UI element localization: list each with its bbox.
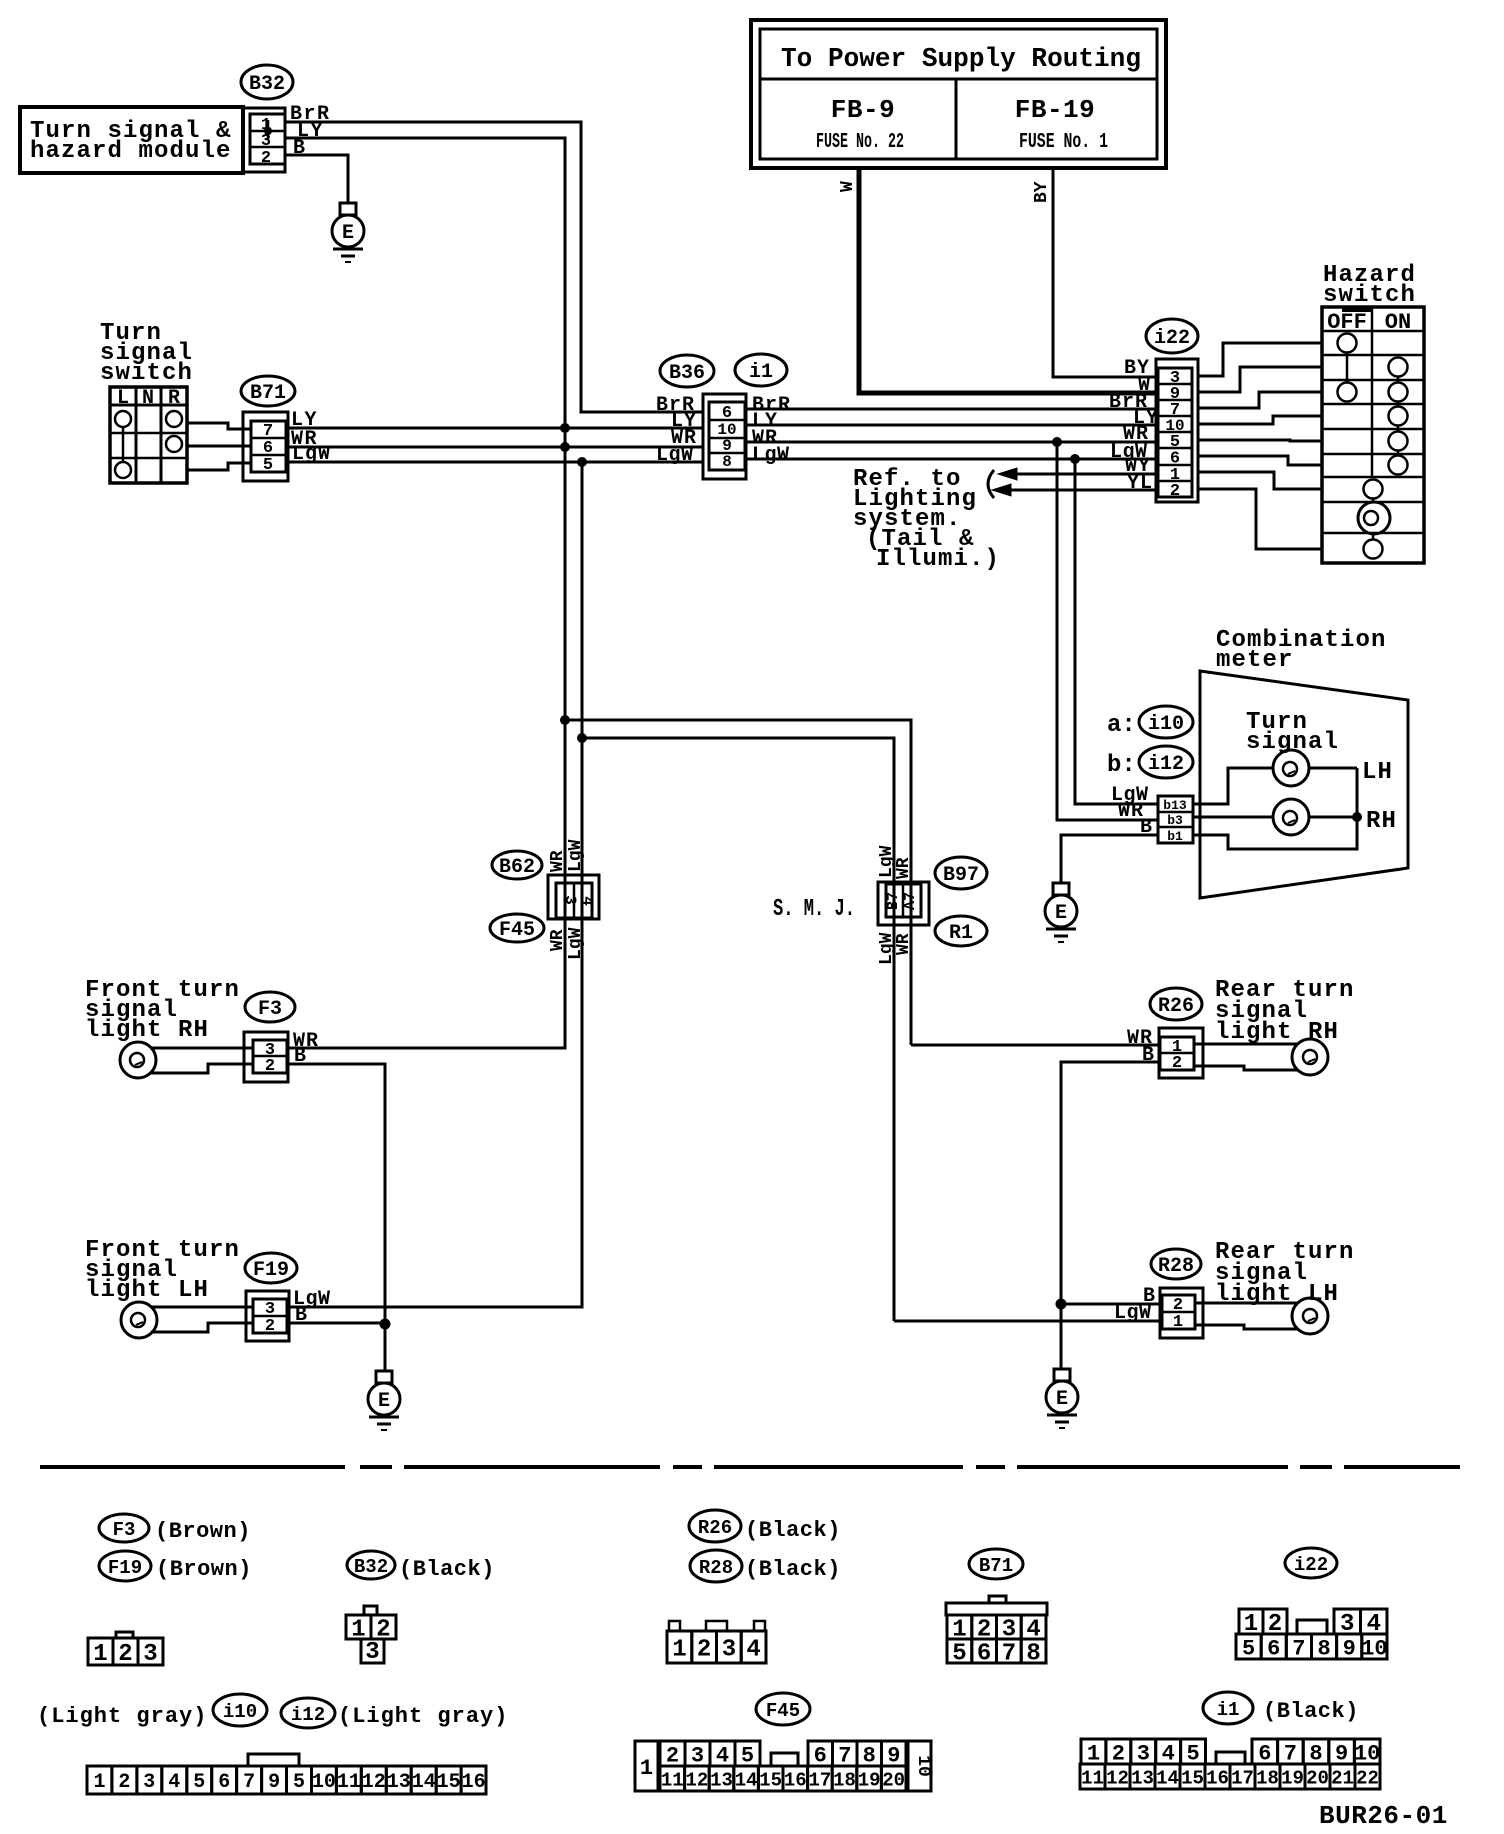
svg-text:i1: i1 — [1217, 1699, 1240, 1721]
wire B R28 pin2 — [1061, 1285, 1162, 1308]
wire BY from fuse FB-19 to i22 pin 3 — [1032, 168, 1156, 377]
wire B from B32 pin 2 to ground — [285, 137, 348, 203]
rear turn signal light RH — [1215, 977, 1355, 1046]
svg-text:switch: switch — [1323, 282, 1416, 309]
svg-text:2: 2 — [118, 1771, 130, 1794]
svg-text:(Black): (Black) — [745, 1518, 841, 1543]
svg-text:R1: R1 — [949, 922, 973, 945]
junction B front lights — [380, 1319, 391, 1372]
turn signal lamp LH — [1193, 750, 1393, 804]
svg-text:B: B — [1142, 1044, 1155, 1067]
svg-text:F45: F45 — [499, 919, 535, 942]
wire i22 pin7 to hazard row3 — [1198, 392, 1322, 408]
legend (Light gray) i10 i12 (Light gray) — [37, 1694, 508, 1729]
svg-text:8: 8 — [1317, 1636, 1330, 1661]
wire LY from B32 pin 3 to LY bus — [285, 120, 565, 428]
hazard switch — [1322, 262, 1424, 563]
svg-text:(Light gray): (Light gray) — [338, 1704, 508, 1729]
legend connector F19 (Brown) — [99, 1551, 252, 1582]
front turn signal light RH — [85, 977, 240, 1044]
svg-text:11: 11 — [661, 1769, 684, 1791]
svg-text:2: 2 — [1170, 482, 1180, 501]
wire WR F3 pin3 — [288, 1030, 565, 1053]
svg-text:14: 14 — [1156, 1767, 1179, 1789]
wire i22 pin3 to hazard row1 — [1198, 343, 1322, 376]
svg-text:1: 1 — [640, 1756, 653, 1781]
legend connector R28 (Black) — [690, 1550, 841, 1582]
svg-text:S. M. J.: S. M. J. — [773, 896, 855, 923]
wire i22 pin1 to hazard row7 — [1198, 472, 1322, 489]
svg-text:L: L — [117, 387, 129, 410]
junction LgW tap down — [577, 457, 587, 467]
svg-text:signal: signal — [1246, 729, 1339, 756]
svg-text:R26: R26 — [1158, 995, 1194, 1018]
svg-text:R: R — [168, 387, 180, 410]
svg-text:B71: B71 — [250, 382, 286, 405]
svg-text:20: 20 — [1306, 1767, 1329, 1789]
wire B F3 pin2 — [288, 1045, 385, 1324]
svg-text:light RH: light RH — [85, 1017, 209, 1044]
svg-text:F45: F45 — [766, 1700, 800, 1722]
legend pinout B32 — [346, 1606, 396, 1666]
arrow wire WY i22 pin1 ref — [998, 468, 1156, 480]
ground E front lights — [368, 1371, 400, 1430]
legend connector i1 (Black) — [1203, 1692, 1359, 1724]
svg-text:LgW: LgW — [566, 927, 586, 960]
svg-text:N: N — [142, 387, 154, 410]
wire i22 pin9 to hazard row2 — [1198, 367, 1322, 392]
svg-text:WR: WR — [894, 857, 914, 879]
ref. to lighting system note — [853, 466, 1000, 573]
svg-text:switch: switch — [100, 360, 193, 387]
svg-text:B: B — [293, 137, 307, 160]
svg-text:12: 12 — [1106, 1767, 1129, 1789]
svg-text:8: 8 — [1026, 1641, 1040, 1668]
connector B36/i1 — [656, 354, 791, 479]
wire i22 pin5 to hazard row5 — [1198, 440, 1322, 441]
svg-text:BY: BY — [1032, 181, 1052, 203]
svg-text:B97: B97 — [943, 864, 979, 887]
connector F3 — [244, 992, 295, 1082]
wire B R26 pin2 — [1061, 1044, 1160, 1304]
lamp rear RH — [1194, 1039, 1328, 1075]
wire WR trunk vertical (bus to F3) — [288, 447, 565, 1048]
svg-text:R28: R28 — [699, 1557, 733, 1579]
connector B97/R1 (SMJ) — [877, 845, 987, 965]
wire LgW R28 pin1 — [894, 1302, 1162, 1325]
svg-text:4: 4 — [746, 1637, 760, 1664]
svg-text:11: 11 — [1081, 1767, 1104, 1789]
svg-text:2: 2 — [118, 1641, 132, 1668]
svg-text:18: 18 — [1256, 1767, 1279, 1789]
svg-text:3: 3 — [365, 1639, 379, 1666]
legend pinout R26/R28 1-4 — [667, 1621, 766, 1664]
svg-text:R26: R26 — [698, 1517, 732, 1539]
wire WR bus B71 pin6 to B36 pin9 — [288, 428, 703, 451]
junction WR branch to SMJ — [560, 715, 911, 1045]
lamp common return to b1 — [1193, 768, 1362, 849]
svg-text:16: 16 — [784, 1769, 807, 1791]
legend pinout F45 20-pin — [635, 1741, 933, 1791]
svg-text:i1: i1 — [749, 361, 773, 384]
ground E below B32 — [332, 203, 364, 262]
svg-text:i12: i12 — [291, 1704, 325, 1726]
lamp front LH — [121, 1302, 253, 1338]
svg-text:4: 4 — [168, 1771, 180, 1794]
connector b13/b3/b1 — [1111, 784, 1193, 844]
power supply routing box — [751, 20, 1166, 168]
svg-text:WR: WR — [894, 933, 914, 955]
wire LgW bus B71 pin5 to B36 pin8 — [288, 443, 703, 466]
turn signal lamp RH — [1193, 799, 1397, 835]
svg-text:(Light gray): (Light gray) — [37, 1704, 207, 1729]
svg-text:W: W — [838, 181, 858, 192]
svg-text:10: 10 — [913, 1755, 933, 1777]
turn signal & hazard module — [20, 107, 243, 173]
junction LgW branch to SMJ — [577, 733, 894, 1321]
svg-text:F3: F3 — [258, 998, 282, 1021]
ground E rear lights — [1046, 1369, 1078, 1428]
wire W from fuse FB-9 to i22 pin 9 — [838, 168, 1156, 393]
wire i22 pin10 to hazard row4 — [1198, 416, 1322, 424]
connector ref a: i10 — [1107, 706, 1193, 739]
legend connector R26 (Black) — [689, 1510, 841, 1543]
svg-text:B32: B32 — [249, 73, 285, 96]
svg-text:17: 17 — [1231, 1767, 1254, 1789]
svg-text:5: 5 — [263, 456, 273, 475]
legend pinout i1 22-pin — [1080, 1739, 1380, 1789]
svg-text:7: 7 — [243, 1771, 255, 1794]
legend pinout F3/F19 1-3 — [88, 1632, 163, 1668]
svg-text:5: 5 — [1242, 1636, 1255, 1661]
svg-text:1: 1 — [93, 1771, 105, 1794]
i22 left wire labels — [1109, 357, 1159, 495]
svg-text:5: 5 — [952, 1641, 966, 1668]
junction LY/B32 — [560, 423, 570, 433]
svg-text:15: 15 — [437, 1771, 461, 1794]
svg-text:b1: b1 — [1167, 829, 1183, 844]
arrow wire YL i22 pin2 ref — [992, 484, 1156, 496]
svg-text:E: E — [1056, 1388, 1068, 1411]
svg-text:3: 3 — [143, 1771, 155, 1794]
wire stubs switch to B71 — [187, 423, 252, 470]
wire BrR B36 to i22 pin7 — [746, 408, 1156, 411]
connector R26 — [1150, 988, 1203, 1078]
svg-text:E: E — [378, 1390, 390, 1413]
svg-text:(Black): (Black) — [745, 1557, 841, 1582]
legend pinout i22 1-10 — [1236, 1609, 1388, 1661]
svg-text:RH: RH — [1366, 808, 1397, 835]
separator dashed line — [40, 1465, 1460, 1469]
svg-text:b:: b: — [1107, 752, 1136, 779]
svg-text:E: E — [342, 222, 354, 245]
svg-text:i12: i12 — [1148, 753, 1184, 776]
connector B62/F45 — [490, 839, 599, 960]
svg-text:7: 7 — [1002, 1641, 1016, 1668]
svg-text:To Power Supply Routing: To Power Supply Routing — [781, 45, 1141, 75]
svg-text:B36: B36 — [669, 362, 705, 385]
wire B F19 pin2 — [289, 1304, 385, 1327]
front turn signal light LH — [85, 1237, 240, 1304]
svg-text:8: 8 — [722, 453, 732, 471]
svg-text:1: 1 — [1173, 1313, 1183, 1332]
legend connector F3 (Brown) — [99, 1514, 251, 1544]
svg-text:E: E — [1055, 902, 1067, 925]
svg-text:1: 1 — [93, 1641, 107, 1668]
svg-text:6: 6 — [1267, 1636, 1280, 1661]
svg-text:WR: WR — [548, 929, 568, 951]
wire i22 pin2 to hazard row9 — [1198, 489, 1322, 549]
svg-text:F3: F3 — [113, 1519, 136, 1541]
wire LY bus B71 pin7 to B36 pin10 — [288, 409, 703, 432]
svg-text:b13: b13 — [1163, 798, 1187, 813]
turn signal switch — [100, 320, 193, 483]
svg-text:19: 19 — [858, 1769, 881, 1791]
svg-text:7: 7 — [1292, 1636, 1305, 1661]
ground E below meter — [1045, 883, 1077, 942]
svg-text:B32: B32 — [354, 1556, 388, 1578]
svg-text:2: 2 — [1172, 1054, 1182, 1073]
svg-text:(Black): (Black) — [399, 1557, 495, 1582]
svg-text:16: 16 — [1206, 1767, 1229, 1789]
legend pinout B71 1-8 — [946, 1596, 1047, 1668]
diagram number BUR26-01 — [1319, 1801, 1448, 1831]
svg-text:20: 20 — [882, 1769, 905, 1791]
svg-text:15: 15 — [759, 1769, 782, 1791]
svg-text:light LH: light LH — [85, 1277, 209, 1304]
svg-text:FB-9: FB-9 — [831, 95, 895, 125]
wire i22 pin6 to hazard row6 — [1198, 456, 1322, 465]
legend connector B71 — [969, 1549, 1023, 1579]
rear turn signal light LH — [1215, 1239, 1355, 1308]
wire B meter b1 to ground — [1061, 835, 1158, 883]
svg-text:B62: B62 — [499, 856, 535, 879]
svg-text:12: 12 — [685, 1769, 708, 1791]
S.M.J. junction label — [773, 896, 855, 923]
svg-text:B7: B7 — [885, 892, 902, 910]
svg-text:LgW: LgW — [292, 443, 331, 466]
wire WR R26 pin1 — [911, 1027, 1160, 1050]
svg-text:3: 3 — [561, 895, 579, 905]
svg-text:10: 10 — [1361, 1636, 1387, 1661]
svg-text:i10: i10 — [223, 1701, 257, 1723]
svg-text:LgW: LgW — [566, 839, 586, 872]
svg-text:A7: A7 — [902, 892, 919, 910]
svg-text:FUSE No. 22: FUSE No. 22 — [816, 131, 904, 154]
svg-text:2: 2 — [265, 1317, 275, 1336]
legend connector B32 (Black) — [347, 1551, 495, 1582]
legend connector i22 — [1285, 1548, 1337, 1578]
svg-text:15: 15 — [1181, 1767, 1204, 1789]
svg-text:R28: R28 — [1158, 1255, 1194, 1278]
connector F19 — [245, 1253, 297, 1341]
junction WR tap down — [560, 428, 570, 452]
svg-text:a:: a: — [1107, 712, 1136, 739]
svg-text:LgW: LgW — [1114, 1302, 1152, 1325]
lamp rear LH — [1195, 1298, 1328, 1334]
svg-text:10: 10 — [312, 1771, 336, 1794]
connector ref b: i12 — [1107, 746, 1193, 779]
svg-text:5: 5 — [193, 1771, 205, 1794]
svg-text:BUR26-01: BUR26-01 — [1319, 1801, 1448, 1831]
svg-text:B71: B71 — [979, 1555, 1013, 1577]
svg-text:F19: F19 — [253, 1259, 289, 1282]
svg-text:6: 6 — [977, 1641, 991, 1668]
svg-text:19: 19 — [1281, 1767, 1304, 1789]
svg-text:i10: i10 — [1148, 713, 1184, 736]
wire LgW B36 to i22 pin6 — [746, 454, 1156, 464]
svg-text:6: 6 — [218, 1771, 230, 1794]
svg-text:b3: b3 — [1167, 813, 1183, 828]
wire LgW F19 pin3 — [289, 1288, 582, 1311]
svg-text:14: 14 — [735, 1769, 758, 1791]
svg-text:22: 22 — [1356, 1767, 1379, 1789]
svg-text:3: 3 — [722, 1637, 736, 1664]
svg-text:5: 5 — [293, 1771, 305, 1794]
svg-text:2: 2 — [265, 1057, 275, 1076]
svg-text:i22: i22 — [1294, 1554, 1328, 1576]
connector i22 — [1146, 319, 1198, 502]
svg-text:B: B — [295, 1304, 308, 1327]
svg-text:14: 14 — [412, 1771, 436, 1794]
svg-text:17: 17 — [808, 1769, 831, 1791]
svg-text:(Brown): (Brown) — [156, 1557, 252, 1582]
svg-text:1: 1 — [672, 1637, 686, 1664]
combination meter — [1200, 627, 1408, 898]
svg-text:2: 2 — [697, 1637, 711, 1664]
svg-text:16: 16 — [462, 1771, 486, 1794]
svg-text:LgW: LgW — [656, 444, 694, 467]
svg-text:WR: WR — [548, 850, 568, 872]
svg-text:13: 13 — [710, 1769, 733, 1791]
connector B32 — [241, 65, 293, 172]
svg-text:F19: F19 — [108, 1557, 142, 1579]
svg-text:B: B — [294, 1045, 307, 1068]
svg-text:9: 9 — [268, 1771, 280, 1794]
svg-text:LH: LH — [1362, 759, 1393, 786]
connector B71 — [241, 376, 295, 481]
connector R28 — [1151, 1249, 1203, 1338]
svg-text:hazard module: hazard module — [30, 138, 232, 165]
svg-text:18: 18 — [833, 1769, 856, 1791]
svg-text:meter: meter — [1216, 647, 1294, 674]
svg-text:FB-19: FB-19 — [1015, 95, 1096, 125]
svg-text:11: 11 — [337, 1771, 361, 1794]
legend connector F45 — [756, 1693, 810, 1725]
svg-text:Illumi.): Illumi.) — [876, 546, 1000, 573]
wire LgW trunk vertical (bus to F19) — [289, 462, 582, 1307]
junction B rear lights — [1056, 1299, 1067, 1370]
svg-text:(Brown): (Brown) — [155, 1519, 251, 1544]
svg-text:13: 13 — [1131, 1767, 1154, 1789]
svg-text:13: 13 — [387, 1771, 411, 1794]
wire WR bus tap to meter b3 — [1057, 442, 1158, 820]
wire BrR from B32 pin 1 to B36 pin 6 — [285, 103, 703, 412]
wire LgW bus tap to meter b13 — [1075, 459, 1158, 804]
svg-text:i22: i22 — [1154, 327, 1190, 350]
svg-text:3: 3 — [143, 1641, 157, 1668]
wire LY B36 to i22 pin10 — [746, 424, 1156, 427]
svg-text:21: 21 — [1331, 1767, 1354, 1789]
legend pinout i10/i12 16-pin — [87, 1754, 486, 1794]
svg-text:12: 12 — [362, 1771, 386, 1794]
svg-text:9: 9 — [1343, 1636, 1356, 1661]
lamp front RH — [120, 1042, 253, 1078]
svg-text:FUSE No. 1: FUSE No. 1 — [1019, 131, 1108, 154]
wire WR B36 to i22 pin5 — [746, 437, 1156, 447]
svg-text:(Black): (Black) — [1263, 1699, 1359, 1724]
svg-text:4: 4 — [578, 896, 596, 906]
svg-text:2: 2 — [261, 149, 271, 168]
svg-text:LgW: LgW — [752, 444, 790, 467]
